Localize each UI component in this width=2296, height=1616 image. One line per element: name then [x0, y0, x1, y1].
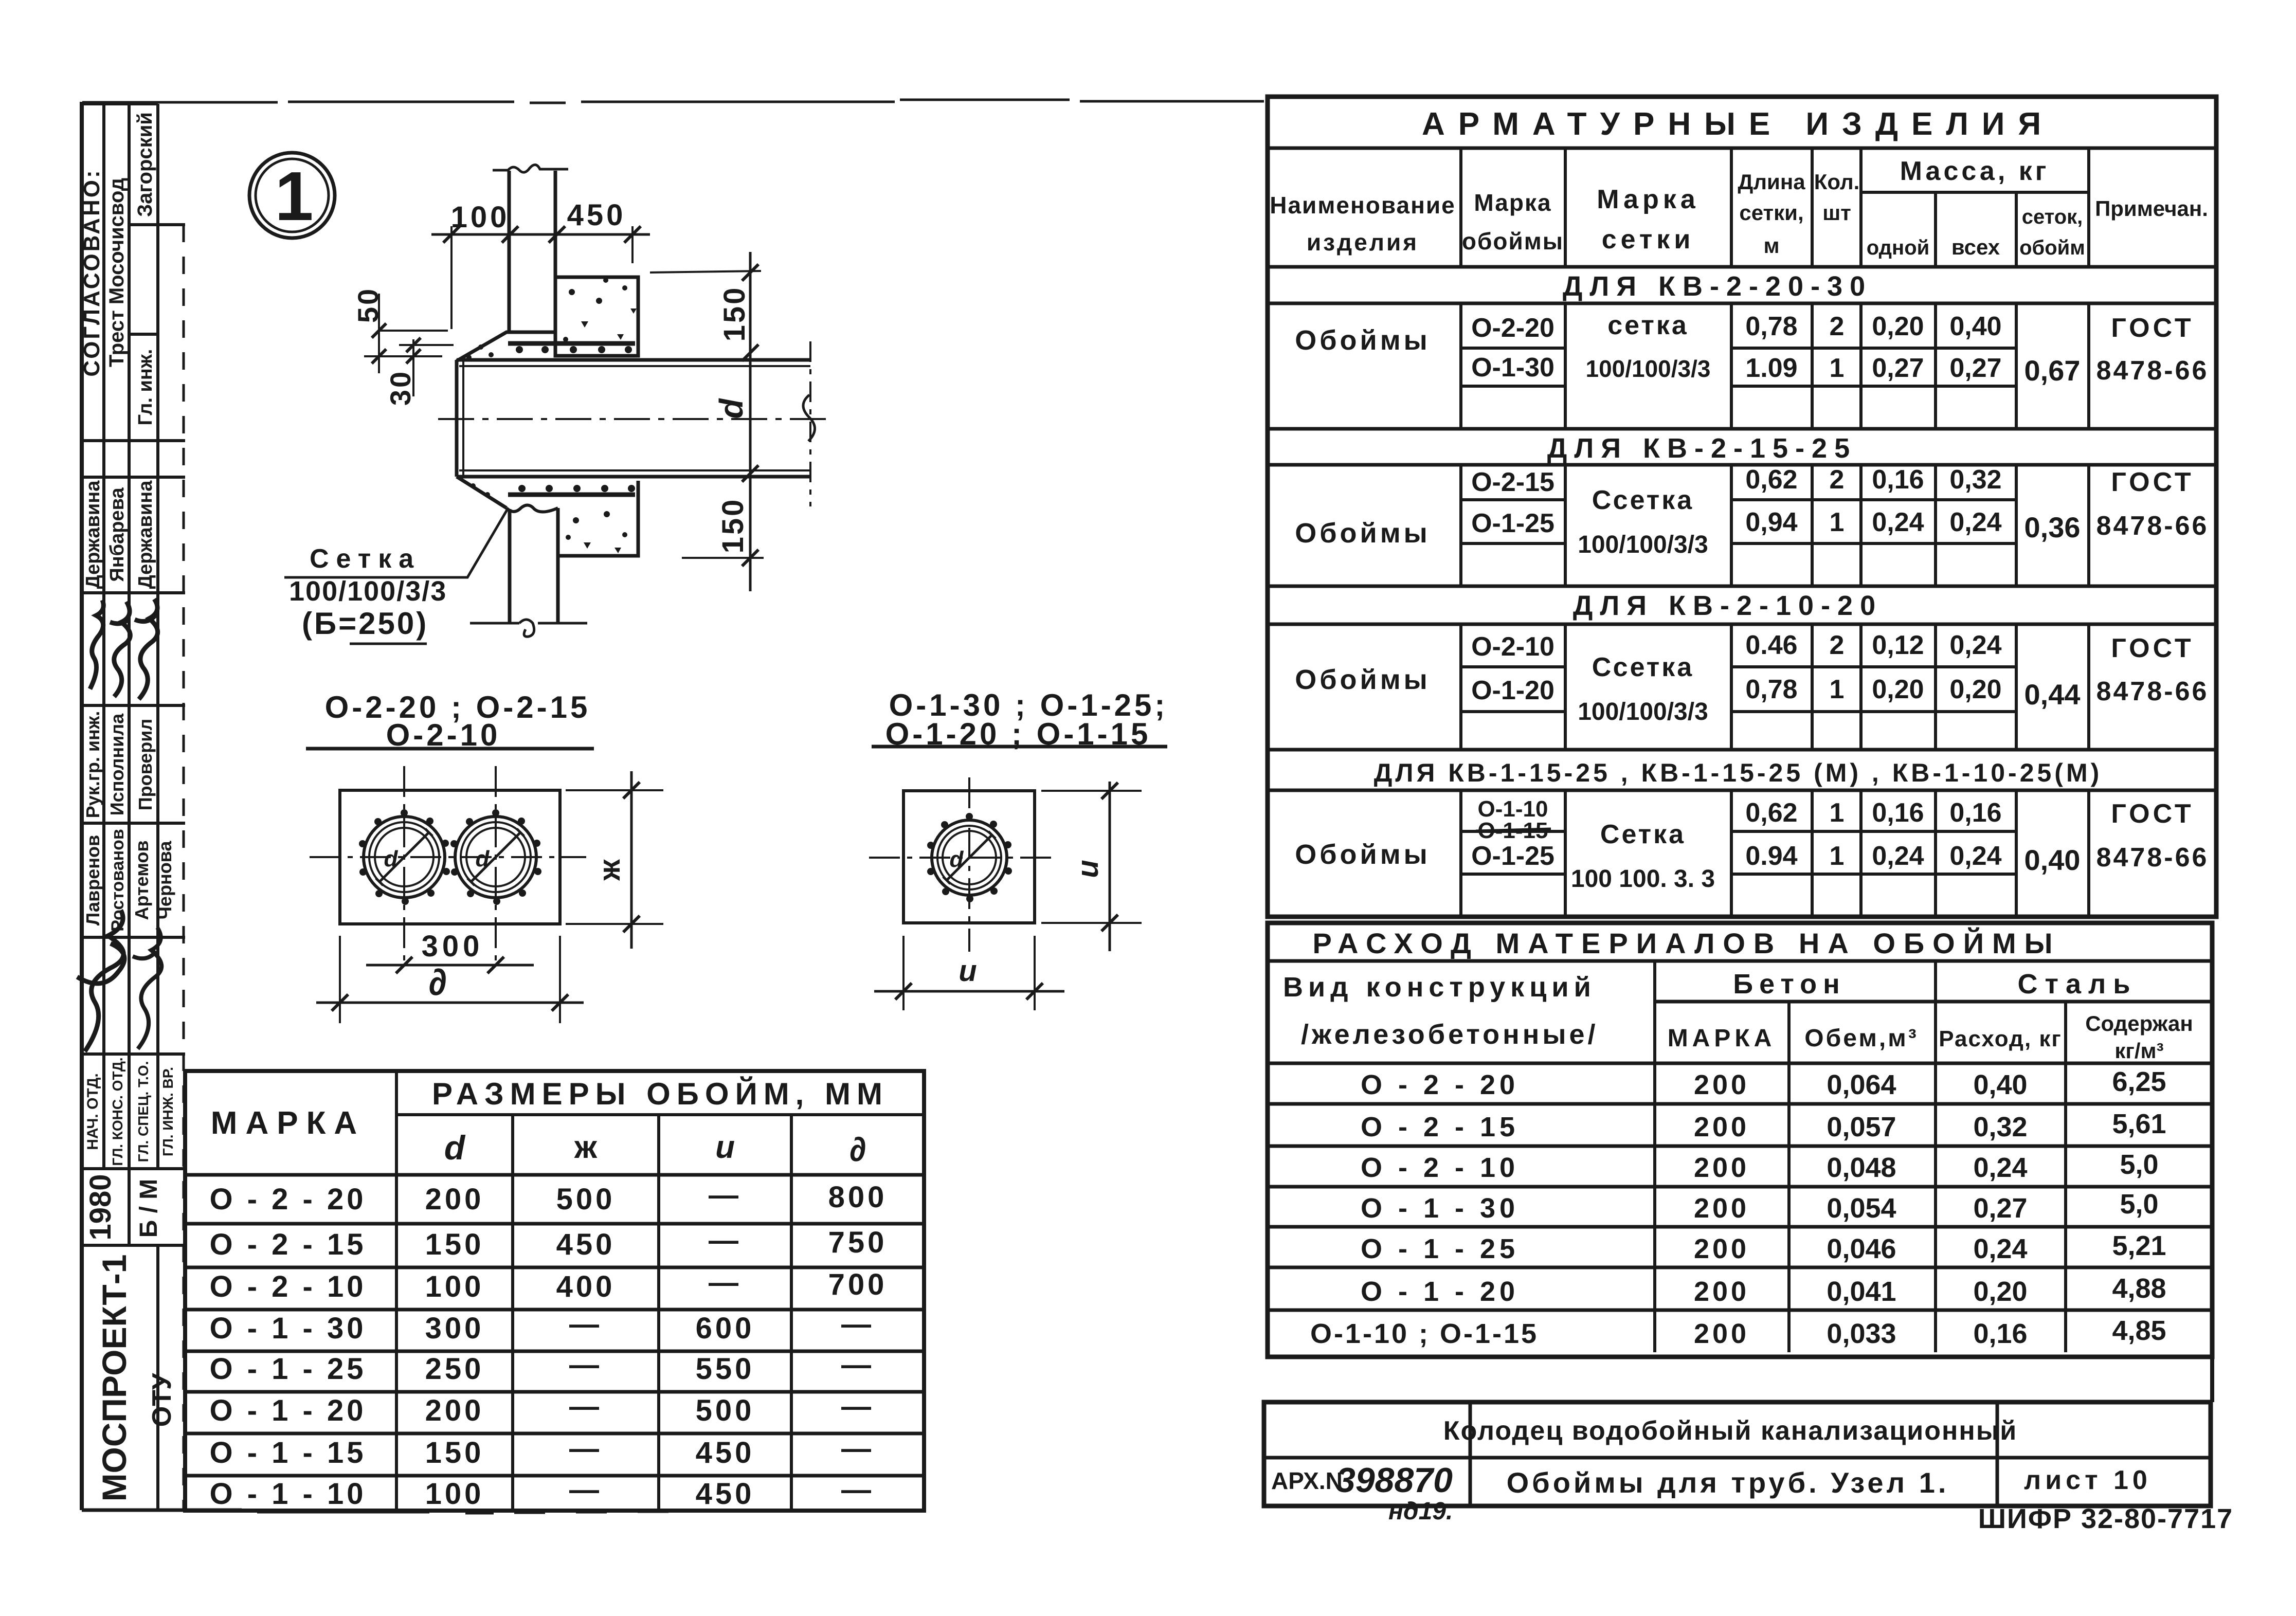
svg-text:НАЧ. ОТД.: НАЧ. ОТД.: [84, 1073, 101, 1150]
sheet bottom border: [82, 1510, 668, 1513]
svg-text:О - 2 - 10: О - 2 - 10: [210, 1270, 367, 1303]
wall top break squiggle: [493, 165, 568, 172]
plan O-1 pipe circle: [932, 820, 1007, 895]
upper concrete block: [555, 277, 638, 356]
table 2 row О-1-25: [1361, 1230, 2166, 1264]
svg-text:30: 30: [384, 370, 417, 406]
left table row О-1-25: [210, 1348, 874, 1386]
svg-text:Державина: Державина: [82, 480, 104, 589]
svg-text:0,046: 0,046: [1827, 1233, 1896, 1264]
svg-text:Ссетка: Ссетка: [1592, 485, 1694, 515]
svg-text:кг/м³: кг/м³: [2114, 1039, 2163, 1063]
svg-text:О - 1 - 25: О - 1 - 25: [1361, 1233, 1519, 1264]
svg-text:Трест Мосочисвод: Трест Мосочисвод: [105, 178, 128, 367]
svg-text:0,32: 0,32: [1973, 1112, 2027, 1142]
signature scribble row 1 col 2: [110, 602, 130, 697]
svg-text:ГОСТ: ГОСТ: [2111, 633, 2194, 663]
svg-text:—: —: [569, 1348, 602, 1382]
svg-text:200: 200: [1694, 1152, 1749, 1183]
svg-text:0,62: 0,62: [1745, 798, 1797, 828]
svg-text:0,40: 0,40: [1973, 1069, 2027, 1100]
svg-text:400: 400: [556, 1270, 616, 1303]
svg-text:0,44: 0,44: [2024, 678, 2081, 711]
wall upper left line: [508, 171, 511, 333]
svg-text:250: 250: [425, 1352, 484, 1386]
svg-text:Примечан.: Примечан.: [2095, 196, 2208, 221]
svg-text:Обоймы: Обоймы: [1295, 839, 1431, 870]
dim 50 vertical line: [378, 294, 380, 373]
svg-text:0,94: 0,94: [1745, 507, 1797, 537]
svg-text:398870: 398870: [1336, 1461, 1453, 1500]
svg-text:О-1-25: О-1-25: [1471, 509, 1554, 538]
250 underline: [350, 643, 427, 645]
node marker 1 circle: [249, 153, 335, 238]
svg-text:—: —: [841, 1308, 874, 1341]
svg-text:0,24: 0,24: [1949, 630, 2001, 660]
svg-text:200: 200: [1694, 1276, 1749, 1307]
svg-text:d: d: [713, 398, 750, 419]
table 1 масса split line: [1861, 191, 2089, 194]
svg-text:О-1-10 ; О-1-15: О-1-10 ; О-1-15: [1310, 1318, 1539, 1349]
svg-text:РАСХОД МАТЕРИАЛОВ НА ОБОЙМЫ: РАСХОД МАТЕРИАЛОВ НА ОБОЙМЫ: [1313, 927, 2061, 959]
svg-text:шт: шт: [1822, 201, 1851, 225]
svg-text:4,85: 4,85: [2112, 1315, 2166, 1346]
svg-text:100/100/3/3: 100/100/3/3: [1585, 355, 1710, 382]
svg-text:1: 1: [1830, 798, 1845, 828]
table 2 row О-2-20: [1361, 1066, 2166, 1100]
svg-text:1: 1: [1830, 507, 1845, 537]
plan O-2 dim 300 line: [366, 964, 534, 967]
table 1 row split lines: [1461, 348, 2016, 874]
signature scribble row 1 col 1: [90, 600, 103, 689]
svg-text:ДЛЯ КВ-2-20-30: ДЛЯ КВ-2-20-30: [1563, 271, 1872, 302]
right dim ticks: [742, 264, 758, 566]
pipe centerline: [438, 418, 830, 420]
svg-text:Б / М: Б / М: [135, 1179, 162, 1238]
svg-text:0,16: 0,16: [1872, 465, 1924, 495]
signature scribble row 1 col 3: [135, 599, 158, 699]
svg-text:150: 150: [425, 1436, 484, 1469]
svg-text:0,20: 0,20: [1872, 675, 1924, 704]
svg-text:—: —: [709, 1266, 742, 1299]
svg-text:600: 600: [696, 1312, 755, 1345]
table 1 vertical lines: [1461, 148, 2089, 917]
left table МАРКА/РАЗМЕРЫ grid: [185, 1071, 924, 1511]
Сетка underline and leader: [284, 509, 508, 577]
svg-text:Сталь: Сталь: [2018, 969, 2138, 1000]
svg-text:О - 1 - 10: О - 1 - 10: [210, 1477, 367, 1511]
svg-text:100: 100: [451, 201, 510, 234]
svg-text:550: 550: [696, 1352, 755, 1386]
wall lower left line: [508, 509, 512, 623]
svg-text:1: 1: [1830, 841, 1845, 871]
svg-text:0,16: 0,16: [1949, 798, 2001, 828]
svg-text:О-2-10: О-2-10: [1471, 632, 1554, 662]
svg-text:ОТУ: ОТУ: [147, 1373, 177, 1427]
svg-text:Расход, кг: Расход, кг: [1939, 1026, 2062, 1051]
svg-text:300: 300: [425, 1312, 484, 1345]
svg-text:—: —: [841, 1348, 874, 1382]
top dim ticks: [443, 226, 641, 243]
svg-text:О-1-20: О-1-20: [1471, 676, 1554, 705]
svg-text:ШИФР 32-80-7717: ШИФР 32-80-7717: [1978, 1503, 2233, 1534]
svg-text:О - 1 - 25: О - 1 - 25: [210, 1352, 367, 1386]
lower concrete block: [558, 481, 638, 556]
svg-text:—: —: [841, 1390, 874, 1423]
svg-text:d: d: [444, 1129, 466, 1167]
right dim ticks: [623, 782, 640, 932]
right border of sheet: [2210, 1357, 2214, 1402]
svg-text:нд19.: нд19.: [1388, 1498, 1453, 1525]
svg-text:0,033: 0,033: [1827, 1318, 1896, 1349]
svg-text:450: 450: [696, 1477, 755, 1511]
svg-text:0,041: 0,041: [1827, 1276, 1896, 1307]
svg-text:8478-66: 8478-66: [2096, 511, 2209, 541]
plan O-2 dim ∂ line: [316, 1002, 584, 1004]
svg-text:50: 50: [352, 287, 384, 323]
svg-text:d: d: [384, 846, 399, 871]
svg-text:450: 450: [696, 1436, 755, 1469]
svg-text:0,78: 0,78: [1745, 312, 1797, 341]
right table 1 АРМАТУРНЫЕ ИЗДЕЛИЯ outer: [1268, 97, 2216, 917]
svg-text:О - 1 - 20: О - 1 - 20: [1361, 1276, 1519, 1307]
stamp column horizontal lines: [82, 104, 185, 1245]
svg-text:1.09: 1.09: [1745, 353, 1797, 383]
svg-text:О - 1 - 20: О - 1 - 20: [210, 1394, 367, 1427]
svg-text:100/100/3/3: 100/100/3/3: [1578, 531, 1708, 558]
svg-text:5,61: 5,61: [2112, 1109, 2166, 1139]
svg-text:150: 150: [718, 286, 751, 342]
svg-text:0,24: 0,24: [1949, 507, 2001, 537]
svg-text:/железобетонные/: /железобетонные/: [1301, 1019, 1599, 1050]
svg-text:одной: одной: [1867, 237, 1929, 259]
svg-text:—: —: [569, 1308, 602, 1341]
svg-text:—: —: [569, 1473, 602, 1506]
left table row О-2-20: [210, 1178, 888, 1216]
block 2 values: [1471, 465, 2209, 558]
plan O-1 bottom dim line: [874, 990, 1064, 993]
svg-text:Марка: Марка: [1474, 189, 1551, 216]
dim ∂ extension lines: [340, 936, 560, 1023]
pipe circle left teeth: [359, 809, 450, 905]
signature scribble row 2 col 3: [133, 928, 161, 1049]
svg-text:Ссетка: Ссетка: [1592, 652, 1694, 682]
stamp column dashed border x357: [183, 225, 185, 1510]
svg-text:200: 200: [1694, 1318, 1749, 1349]
svg-text:О - 1 - 15: О - 1 - 15: [210, 1436, 367, 1469]
svg-text:изделия: изделия: [1307, 229, 1419, 256]
title block frame: [1264, 1402, 2211, 1506]
svg-text:0,67: 0,67: [2024, 354, 2081, 387]
svg-text:∂: ∂: [849, 1130, 866, 1168]
svg-text:d: d: [476, 846, 490, 871]
dim 300 ticks: [396, 957, 504, 973]
plan O-2 pipe circle left: [364, 816, 445, 898]
plan O-2 right dim vertical: [630, 771, 633, 949]
svg-text:6,25: 6,25: [2112, 1066, 2166, 1097]
svg-text:0,24: 0,24: [1872, 507, 1924, 537]
svg-text:—: —: [569, 1390, 602, 1423]
svg-text:Обоймы для труб. Узел 1.: Обоймы для труб. Узел 1.: [1507, 1466, 1949, 1499]
svg-text:450: 450: [556, 1228, 616, 1261]
svg-text:0,16: 0,16: [1973, 1318, 2027, 1349]
table 2 row О-1-10 О-1-15: [1310, 1315, 2166, 1349]
svg-text:СОГЛАСОВАНО:: СОГЛАСОВАНО:: [79, 168, 104, 376]
plan O-2 horizontal centerline: [310, 856, 586, 858]
svg-text:м: м: [1763, 233, 1779, 258]
svg-text:200: 200: [425, 1394, 484, 1427]
svg-text:О - 2 - 20: О - 2 - 20: [1361, 1069, 1519, 1100]
svg-text:2: 2: [1830, 312, 1845, 341]
svg-text:Исполнила: Исполнила: [106, 713, 128, 815]
lower 150 extension line: [682, 557, 764, 559]
svg-text:Марка: Марка: [1597, 185, 1700, 214]
svg-text:Кол.: Кол.: [1814, 170, 1860, 194]
O-1 bottom dim ext lines: [903, 936, 1035, 1010]
stamp column vertical line x251: [128, 104, 131, 1245]
pipe circle left diameter arrow: [376, 829, 432, 885]
O-1 circle teeth: [927, 813, 1012, 902]
right table 2 РАСХОД МАТЕРИАЛОВ outer: [1268, 923, 2212, 1357]
svg-text:∂: ∂: [428, 962, 447, 1003]
pipe outline: [457, 360, 810, 477]
svg-text:4,88: 4,88: [2112, 1273, 2166, 1304]
svg-text:ДЛЯ КВ-1-15-25 , КВ-1-15: ДЛЯ КВ-1-15-25 , КВ-1-15-25 (М) , КВ-1-1…: [1374, 758, 2103, 787]
O-1 circle diameter arrow: [943, 831, 996, 884]
block 1 values: [1471, 311, 2209, 387]
svg-text:0,24: 0,24: [1872, 841, 1924, 871]
sheet top border: [82, 100, 1264, 103]
svg-text:0,20: 0,20: [1973, 1276, 2027, 1307]
table 1 full horizontal lines: [1268, 148, 2216, 790]
svg-text:1: 1: [1830, 675, 1845, 704]
svg-text:200: 200: [1694, 1112, 1749, 1142]
plan O-1 right dim vertical: [1109, 782, 1111, 951]
svg-text:200: 200: [1694, 1069, 1749, 1100]
svg-text:Рук.гр. инж.: Рук.гр. инж.: [82, 711, 103, 818]
svg-text:ГОСТ: ГОСТ: [2111, 799, 2194, 829]
svg-text:ГЛ. СПЕЦ. Т.О.: ГЛ. СПЕЦ. Т.О.: [135, 1061, 151, 1163]
svg-text:0,20: 0,20: [1949, 675, 2001, 704]
svg-text:0,78: 0,78: [1745, 675, 1797, 704]
svg-text:100/100/3/3: 100/100/3/3: [1578, 698, 1708, 725]
wall lower right line: [556, 556, 560, 623]
pipe inner wall lines: [459, 361, 810, 476]
svg-text:и: и: [715, 1130, 735, 1165]
svg-text:0,62: 0,62: [1745, 465, 1797, 495]
svg-text:РАЗМЕРЫ ОБОЙМ, ММ: РАЗМЕРЫ ОБОЙМ, ММ: [432, 1077, 889, 1111]
stamp column vertical line x202: [102, 104, 105, 1169]
svg-text:800: 800: [828, 1181, 888, 1214]
svg-text:0,27: 0,27: [1949, 353, 2001, 383]
upper mesh dots: [466, 344, 632, 360]
sheet left border: [80, 102, 84, 1510]
right dimension vertical line: [749, 252, 752, 591]
svg-text:Содержан: Содержан: [2085, 1011, 2193, 1036]
svg-text:100: 100: [425, 1477, 484, 1511]
plan O-2 pipe circle right: [455, 816, 536, 898]
svg-text:ГОСТ: ГОСТ: [2111, 467, 2194, 497]
svg-text:0,048: 0,048: [1827, 1152, 1896, 1183]
svg-text:обоймы: обоймы: [1462, 228, 1564, 255]
svg-text:О-2-20: О-2-20: [1471, 313, 1554, 343]
svg-text:100 100. 3. 3: 100 100. 3. 3: [1571, 865, 1715, 893]
lower mesh dots: [471, 483, 635, 497]
svg-text:0.94: 0.94: [1745, 841, 1797, 871]
block 3 values: [1471, 630, 2209, 725]
svg-text:О - 2 - 10: О - 2 - 10: [1361, 1152, 1519, 1183]
wall upper right line: [554, 171, 557, 278]
svg-text:всех: всех: [1951, 235, 2000, 259]
svg-text:Сетка: Сетка: [310, 544, 421, 574]
svg-text:2: 2: [1830, 630, 1845, 660]
svg-text:(Б=250): (Б=250): [302, 606, 428, 641]
svg-text:Янбарева: Янбарева: [106, 487, 128, 582]
extension line right of dim: [650, 271, 761, 273]
svg-text:сетка: сетка: [1607, 311, 1689, 340]
svg-text:200: 200: [1694, 1233, 1749, 1264]
dim 50-30 ticks: [372, 323, 421, 364]
svg-text:О-1-25: О-1-25: [1471, 841, 1554, 871]
O-1 right dim ext lines: [1041, 791, 1142, 923]
svg-text:5,21: 5,21: [2112, 1230, 2166, 1261]
table 2 row О-1-20: [1361, 1273, 2166, 1307]
left table row О-1-15: [210, 1432, 874, 1469]
plan O-2 title underline: [306, 747, 594, 751]
svg-text:О - 2 - 15: О - 2 - 15: [1361, 1112, 1519, 1142]
svg-text:8478-66: 8478-66: [2096, 843, 2209, 873]
svg-text:—: —: [709, 1224, 742, 1257]
stamp column vertical line x307: [156, 104, 159, 1510]
signature scribble row 2 big: [77, 910, 124, 1051]
svg-text:5,0: 5,0: [2120, 1189, 2158, 1220]
top dimension line: [431, 233, 650, 236]
svg-text:Обоймы: Обоймы: [1295, 664, 1431, 695]
svg-text:Сетка: Сетка: [1600, 820, 1686, 849]
pipe right break dash line: [809, 341, 811, 506]
svg-text:1: 1: [275, 157, 313, 235]
O-1 bottom dim ticks: [895, 983, 1043, 1000]
wall bottom ground line and squiggle: [470, 620, 587, 637]
svg-text:0,12: 0,12: [1872, 630, 1924, 660]
svg-text:МАРКА: МАРКА: [1668, 1025, 1776, 1052]
plan O-1 body square: [903, 791, 1035, 923]
svg-text:500: 500: [696, 1394, 755, 1427]
svg-text:0,27: 0,27: [1872, 353, 1924, 383]
upper collar slant edge: [457, 332, 555, 361]
svg-text:сеток,: сеток,: [2022, 206, 2083, 228]
lower collar mesh line: [508, 493, 635, 497]
svg-text:лист 10: лист 10: [2024, 1465, 2152, 1495]
svg-text:500: 500: [556, 1183, 616, 1216]
svg-text:Обоймы: Обоймы: [1295, 518, 1431, 549]
svg-text:ДЛЯ КВ-2-10-20: ДЛЯ КВ-2-10-20: [1573, 590, 1883, 621]
left table row О-2-15: [210, 1224, 888, 1261]
svg-text:АРМАТУРНЫЕ ИЗДЕЛИЯ: АРМАТУРНЫЕ ИЗДЕЛИЯ: [1422, 106, 2054, 142]
svg-text:ГОСТ: ГОСТ: [2111, 313, 2194, 343]
svg-text:0,27: 0,27: [1973, 1193, 2027, 1224]
svg-text:МАРКА: МАРКА: [211, 1105, 365, 1141]
left table row О-1-20: [210, 1390, 874, 1427]
svg-text:Артемов: Артемов: [131, 841, 152, 920]
plan O-2 body rectangle: [340, 790, 560, 924]
svg-text:Обем,м³: Обем,м³: [1804, 1025, 1918, 1052]
upper collar mesh line: [508, 341, 635, 346]
svg-text:0,40: 0,40: [2024, 844, 2081, 876]
pipe circle right diameter arrow: [467, 829, 524, 885]
svg-text:—: —: [841, 1432, 874, 1465]
svg-text:0,24: 0,24: [1949, 841, 2001, 871]
svg-text:0,24: 0,24: [1973, 1233, 2027, 1264]
left table row О-2-10: [210, 1266, 888, 1303]
lower collar wavy bottom: [507, 505, 558, 512]
svg-text:Лавренов: Лавренов: [82, 835, 103, 925]
svg-text:0.46: 0.46: [1745, 630, 1797, 660]
O-1 right dim ticks: [1101, 783, 1118, 931]
svg-text:О-1-30: О-1-30: [1471, 353, 1554, 383]
svg-text:ДЛЯ КВ-2-15-25: ДЛЯ КВ-2-15-25: [1547, 433, 1857, 464]
lower block stipple: [566, 511, 627, 553]
svg-text:ж: ж: [574, 1130, 598, 1165]
svg-text:450: 450: [567, 198, 626, 232]
dim extension line left x878: [450, 226, 453, 329]
svg-text:ГЛ. КОНС. ОТД.: ГЛ. КОНС. ОТД.: [110, 1057, 125, 1166]
svg-text:Загорский: Загорский: [134, 112, 156, 217]
svg-text:ж: ж: [593, 859, 626, 881]
table 2 row О-1-30: [1361, 1189, 2159, 1224]
svg-text:О - 2 - 20: О - 2 - 20: [210, 1183, 367, 1216]
svg-text:обойм: обойм: [2019, 237, 2085, 259]
svg-text:1: 1: [1830, 353, 1845, 383]
svg-text:Длина: Длина: [1738, 170, 1805, 194]
svg-text:МОСПРОЕКТ-1: МОСПРОЕКТ-1: [95, 1255, 133, 1502]
dim 30 vertical line: [412, 339, 414, 396]
svg-text:Гл. инж.: Гл. инж.: [135, 349, 156, 426]
right dim ext lines: [566, 790, 663, 924]
svg-text:100/100/3/3: 100/100/3/3: [289, 576, 447, 607]
svg-text:Бетон: Бетон: [1733, 969, 1846, 1000]
svg-text:750: 750: [828, 1226, 888, 1259]
svg-text:1980: 1980: [84, 1174, 117, 1240]
dim ∂ ticks: [332, 994, 568, 1011]
svg-text:Проверил: Проверил: [135, 719, 156, 811]
left table row О-1-10: [210, 1473, 874, 1511]
svg-text:О - 1 - 30: О - 1 - 30: [1361, 1193, 1519, 1224]
pipe right break curl: [803, 395, 815, 441]
dim extension line x1230: [631, 226, 634, 263]
svg-text:0,36: 0,36: [2024, 511, 2081, 543]
svg-text:ГЛ. ИНЖ. ВР.: ГЛ. ИНЖ. ВР.: [160, 1067, 176, 1156]
svg-text:О - 1 - 30: О - 1 - 30: [210, 1312, 367, 1345]
upper block stipple: [563, 278, 637, 342]
table 2 vertical lines: [1655, 961, 2066, 1352]
svg-text:Обоймы: Обоймы: [1295, 325, 1431, 356]
svg-text:0,064: 0,064: [1827, 1069, 1896, 1100]
svg-text:0,24: 0,24: [1973, 1152, 2027, 1183]
svg-text:0,32: 0,32: [1949, 465, 2001, 495]
svg-text:—: —: [709, 1178, 742, 1212]
svg-text:200: 200: [1694, 1193, 1749, 1224]
svg-text:2: 2: [1830, 465, 1845, 495]
svg-text:200: 200: [425, 1183, 484, 1216]
svg-text:Масса, кг: Масса, кг: [1900, 156, 2050, 186]
svg-text:АРХ.N: АРХ.N: [1271, 1467, 1343, 1494]
svg-text:d: d: [950, 847, 964, 872]
svg-text:0,057: 0,057: [1827, 1112, 1896, 1142]
table 2 horizontal lines: [1268, 961, 2212, 1310]
block 4 values: [1471, 796, 2209, 893]
svg-text:700: 700: [828, 1268, 888, 1301]
